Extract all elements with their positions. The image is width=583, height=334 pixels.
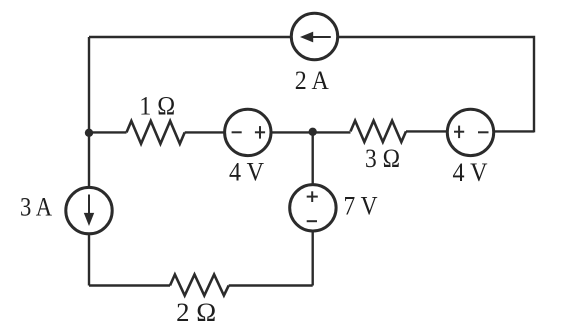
svg-text:7 V: 7 V	[344, 191, 378, 220]
resistor R3 3 ohm	[351, 121, 407, 142]
resistor R2 2 ohm	[170, 275, 229, 296]
wire: bottom horizontal left of R2	[89, 284, 170, 286]
wire: R1 to source V1 to node B	[185, 131, 313, 133]
wire: bottom horizontal right of R2	[229, 284, 313, 286]
current source I2 2A (top)	[291, 13, 337, 59]
wire: middle vertical branch (node B down to bottom wire)	[312, 132, 314, 285]
wire: middle horizontal left segment (node A to R1)	[89, 131, 127, 133]
voltage source V1 4V (minus plus)	[225, 109, 271, 155]
svg-text:3 Ω: 3 Ω	[365, 144, 400, 173]
svg-text:3 A: 3 A	[20, 193, 52, 222]
resistor R1 1 ohm	[127, 121, 185, 144]
svg-text:1 Ω: 1 Ω	[139, 92, 175, 121]
wire: node B to R3	[313, 131, 351, 133]
voltage source V3 7V (plus top minus bottom)	[290, 185, 336, 231]
svg-text:2 A: 2 A	[295, 66, 329, 95]
svg-text:4 V: 4 V	[229, 157, 264, 186]
node A (left junction dot)	[85, 129, 93, 137]
svg-text:4 V: 4 V	[453, 158, 488, 187]
svg-text:2 Ω: 2 Ω	[176, 298, 216, 327]
node B (middle junction dot)	[309, 128, 317, 136]
current source I1 3A (left)	[66, 187, 112, 233]
voltage source V2 4V (plus minus)	[447, 109, 493, 155]
wire: R3 to source V2 to right corner	[406, 130, 534, 132]
wire: top horizontal from left corner to right corner	[89, 37, 534, 132]
wire: left vertical branch	[88, 37, 90, 286]
